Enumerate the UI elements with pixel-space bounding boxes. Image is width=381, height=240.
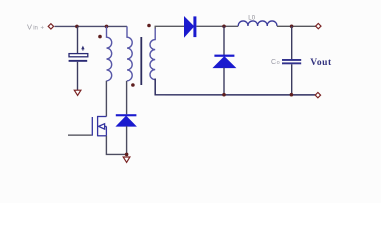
wire reset winding bottom to clamp diode [126,81,128,115]
node primary top junction [105,25,109,29]
wire top rail from Vin+ terminal to reset-winding corner [55,25,128,27]
svg-text:in: in [33,26,38,32]
wire input cap top lead [77,26,79,53]
wire output cap top lead [291,26,293,59]
capacitor Cin polarity plus marker [81,46,84,51]
wire input cap bottom lead [77,62,79,90]
node secondary dot (polarity) [147,24,151,28]
svg-text:+: + [41,25,45,31]
capacitor Cin (electrolytic) [69,54,88,62]
transistor Q1 MOSFET gate lead [68,134,92,136]
svg-text:Vout: Vout [310,58,332,68]
node source/clamp junction [125,153,129,157]
inductor L0 [238,21,277,26]
transformer T1 secondary winding [150,28,155,80]
transistor Q1 MOSFET [92,116,106,136]
wire secondary top to rectifier diode [155,26,184,28]
wire primary bottom to MOSFET drain [105,81,107,117]
terminal Vout- [315,92,320,97]
svg-text:V: V [27,23,32,32]
wire freewheel diode top lead [223,26,225,55]
wire inductor to output cap junction [277,25,316,27]
wire bottom rail (secondary return) [155,79,315,95]
svg-text:C: C [271,59,276,66]
terminal Vin+ [48,24,53,29]
node inductor/cap junction [290,25,294,29]
diode D1 clamp [116,114,137,126]
node reset winding dot (polarity) [131,83,135,87]
wire clamp diode bottom to ground node [126,126,128,154]
node cap bottom junction [290,93,294,97]
node primary dot (polarity) [98,35,102,39]
terminal Vout+ [316,23,321,28]
wire MOSFET source to ground node [106,136,126,155]
transformer T1 primary winding [107,26,112,80]
diode D3 freewheel [214,55,236,68]
capacitor Co [282,59,301,64]
diode D2 output rectifier [185,16,197,37]
ground (input side) [74,90,81,95]
node rectifier/freewheel junction [222,25,226,29]
svg-text:o: o [277,60,280,66]
wire freewheel diode bottom lead [223,68,225,95]
node freewheel bottom junction [222,93,226,97]
ground (primary side) [123,157,130,162]
node cap tap junction [75,25,79,29]
transformer T1 core [140,37,142,85]
wire rectifier to L junction [196,25,238,27]
transformer T1 reset winding [127,26,132,80]
wire output cap bottom lead [291,64,293,94]
